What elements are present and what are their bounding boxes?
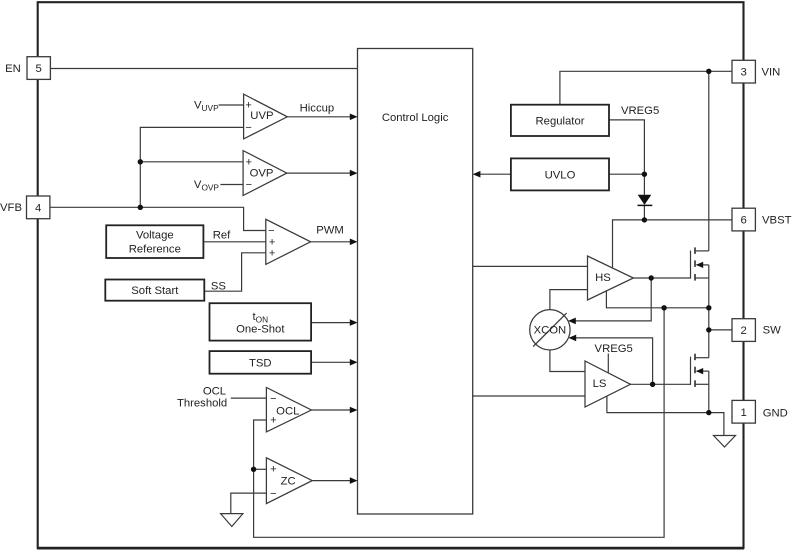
svg-text:TSD: TSD [249,357,272,369]
wire VIN pin left to regulator drop [560,71,732,104]
wire SW branch down along bottom to OCL/ZC plus inputs [254,308,664,538]
svg-text:+: + [246,157,252,169]
node LS output [650,382,655,387]
block UVLO [511,158,609,190]
svg-text:Voltage: Voltage [136,229,174,241]
svg-text:VFB: VFB [0,202,22,214]
wire ZC output to Control Logic [312,480,356,482]
wire HS output to high-side gate [633,277,690,279]
pin box 2 SW [732,319,755,342]
svg-text:6: 6 [741,215,747,227]
comparator OVP [243,151,287,196]
svg-text:Threshold: Threshold [177,398,227,410]
pin box 3 VIN [732,60,755,83]
svg-text:5: 5 [36,63,42,75]
svg-text:UVLO: UVLO [545,169,576,181]
wire feedback divider vertical with UVP minus branch [140,127,243,207]
svg-text:EN: EN [5,63,21,75]
wire Control Logic to HS driver input [473,265,588,267]
svg-text:VUVP: VUVP [194,100,219,113]
node SW pin tap [706,327,711,332]
svg-text:Reference: Reference [129,244,181,256]
wire LS driver return to GND line and ground symbol [607,396,724,435]
svg-text:SS: SS [211,280,227,292]
comparator ZC [266,458,312,504]
wire HS driver return to SW node [606,291,708,308]
wire OVP plus branch [140,161,243,163]
node SW line branch [661,305,666,310]
svg-text:UVP: UVP [250,110,273,122]
wire VREG5 stub into LS driver [607,354,609,373]
node feedback divider / VFB line [138,205,143,210]
arrow LS feedback into XCON [569,335,577,342]
wire UVLO output to Control Logic [474,173,511,175]
wire ZC minus to ground [231,493,267,513]
wire VBST pin to HS driver top [613,220,733,268]
arrow HS feedback into XCON [568,318,576,325]
svg-text:−: − [245,122,251,134]
comparator PWM [266,219,311,264]
arrow OVP into Control Logic [350,170,358,177]
svg-text:Control Logic: Control Logic [382,112,449,124]
diode D1 VREG5 to VBST [638,195,653,206]
wire TSD output to Control Logic [311,361,356,363]
bottom border emphasis [37,547,744,549]
node HS output [649,275,654,280]
wire tON One-Shot output to Control Logic [311,322,356,324]
svg-text:Hiccup: Hiccup [300,102,335,114]
svg-text:HS: HS [595,272,611,284]
wire SW pin to FET node [709,329,732,331]
ground symbol at GND pin [714,436,736,448]
wire ZC plus stub [254,468,267,470]
comparator UVP [244,94,288,139]
svg-text:+: + [270,464,276,476]
block tON One-Shot [210,303,312,340]
wire OVP output to Control Logic [287,172,356,174]
svg-text:3: 3 [741,67,747,79]
wire PWM output to Control Logic [311,241,356,243]
block Regulator [511,105,609,136]
wire LS output to XCON input [570,338,653,384]
svg-text:−: − [270,393,276,405]
svg-text:−: − [270,488,276,500]
wire LS output to low-side gate [631,383,691,385]
wire VOVP stub [220,184,243,186]
wire diode cathode to VBST node [643,205,645,220]
wire UVLO right side to VREG5 node [609,173,644,175]
svg-text:Soft Start: Soft Start [131,285,179,297]
node VIN branch [706,69,711,74]
svg-text:VIN: VIN [762,66,781,78]
wire OCL Threshold stub [231,397,267,399]
node SW line at FET leg [706,305,711,310]
svg-text:PWM: PWM [316,225,344,237]
pin box 4 VFB [27,196,50,219]
svg-text:GND: GND [763,408,788,420]
wire Regulator output VREG5 to UVLO node and diode [609,120,644,195]
pin box 5 EN [27,57,50,80]
svg-text:−: − [268,225,274,237]
wire VUVP stub [219,104,244,106]
svg-text:VREG5: VREG5 [621,105,659,117]
pin box 1 GND [732,400,755,423]
node GND line at FET leg [706,410,711,415]
block TSD [210,351,312,374]
arrow tON into Control Logic [350,319,358,326]
XCON circle [530,310,570,350]
arrow UVLO into Control Logic [473,171,481,178]
node feedback divider / OVP plus [138,159,143,164]
svg-text:+: + [269,248,275,260]
arrow TSD into Control Logic [350,359,358,366]
svg-text:One-Shot: One-Shot [236,323,285,335]
wire Ref from Voltage Reference to PWM comparator [203,241,265,243]
node VBST / diode cathode [642,217,647,222]
arrow OCL into Control Logic [350,407,358,414]
wire LS body-source down to GND line [708,371,710,413]
svg-text:Ref: Ref [213,229,231,241]
svg-text:4: 4 [35,202,41,214]
wire XCON to HS driver [550,290,588,310]
svg-text:VBST: VBST [762,215,792,227]
ground symbol below ZC [221,514,243,527]
block Soft Start [105,280,204,301]
block Control Logic [358,49,473,515]
svg-text:+: + [270,415,276,427]
svg-text:OCL: OCL [276,406,299,418]
node VREG5 / UVLO [642,172,647,177]
svg-text:VOVP: VOVP [194,179,220,192]
driver LS [585,361,631,407]
svg-text:−: − [246,179,252,191]
arrow PWM into Control Logic [350,239,358,246]
driver HS [588,256,634,300]
wire OCL output to Control Logic [311,409,356,411]
wire HS source to LS drain vertical [708,265,710,358]
block Voltage Reference [106,225,203,258]
wire XCON to LS driver [550,350,585,372]
transistor M2 low-side NMOS [691,354,709,387]
node ZC plus tap [251,467,256,472]
comparator OCL [266,388,311,432]
svg-text:XCON: XCON [534,325,567,337]
wire Control Logic to LS driver input [473,395,585,397]
svg-text:OCL: OCL [203,386,226,398]
transistor M1 body arrow [696,262,703,268]
wire SS from Soft Start to PWM comparator [204,253,265,291]
wire VIN node down to HS FET drain [708,71,710,251]
transistor M2 body arrow [696,368,703,374]
wire EN pin to Control Logic [51,68,358,70]
svg-text:1: 1 [741,407,747,419]
arrow ZC into Control Logic [350,477,358,484]
svg-text:ZC: ZC [281,476,296,488]
wire UVP output Hiccup to Control Logic [287,116,356,118]
XCON slash [533,313,566,346]
wire HS output to XCON input [570,278,652,321]
pin box 6 VBST [732,208,755,231]
svg-text:+: + [245,100,251,112]
wire VFB pin to PWM comparator minus [49,207,266,230]
svg-text:SW: SW [763,325,782,337]
transistor M1 high-side NMOS [691,247,709,280]
svg-text:VREG5: VREG5 [595,343,633,355]
svg-text:2: 2 [741,325,747,337]
svg-text:Regulator: Regulator [536,115,585,127]
svg-text:OVP: OVP [250,168,274,180]
arrow Hiccup into Control Logic [350,114,358,121]
svg-text:LS: LS [593,378,607,390]
